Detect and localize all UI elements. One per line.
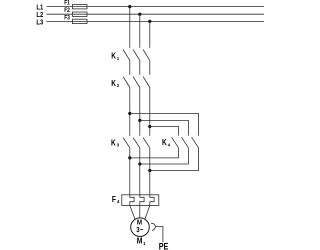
wire: bus 2 upper [139,14,141,48]
svg-text:M: M [137,237,143,246]
wire: K4 middle branch top (bus2 to K4 pole 2) [140,120,189,135]
wire: PE lead [155,226,163,242]
node: K4 return to bus 3 [148,169,151,172]
node: tap L2 [138,13,141,16]
wire: K4 inner branch top (bus3 to K4 pole 1) [150,127,179,136]
wire: K4 middle branch bottom (K4 pole 2 to bus 2) [140,148,189,164]
wire: K4 outer branch top (bus1 to K4 pole 3) [130,114,199,136]
node: tap L1 [128,5,131,8]
label K1 [111,52,120,61]
contactor K2 main contacts [123,77,150,88]
wire: bus 1 upper [129,7,131,48]
overload relay F4 heater element pole 2 [140,195,144,206]
wire: bus 1 between K1 and K2 [129,60,131,74]
wire: bus 2 between K1 and K2 [139,60,141,74]
label K4 [162,138,171,147]
phase line L2 [47,13,265,15]
wire: bus 3 between K3 and F4 [149,148,151,195]
fuse F1 [64,0,87,9]
wire: bus 3 between K2 and K3 [149,88,151,136]
svg-text:K: K [162,138,167,147]
node: K4 return to bus 1 [128,156,131,159]
label M1 [137,237,146,246]
contactor K3 main contacts [123,138,150,148]
node: K4 branch from bus 2 [138,119,141,122]
svg-text:K: K [111,79,116,88]
wire: bus 1 between K2 and K3 [129,88,131,136]
wire: F4 to motor terminal V [139,206,141,218]
contactor K4 main contacts [172,137,199,148]
phase line L3 [47,20,265,22]
fuse F3 [64,14,87,23]
svg-text:F2: F2 [64,7,70,14]
svg-text:F3: F3 [64,14,70,21]
overload relay F4 box [122,195,159,206]
svg-text:PE: PE [159,242,169,250]
wire: F4 to motor terminal U [130,206,135,220]
svg-text:3~: 3~ [136,225,143,234]
wire: bus 3 between K1 and K2 [149,60,151,74]
node: K4 branch from bus 3 [148,125,151,128]
overload relay F4 heater element pole 3 [150,195,154,206]
wire: K4 outer branch bottom (K4 pole 3 to bus 3) [150,148,199,171]
motor M1 circle [131,218,150,237]
wire: bus 1 between K3 and F4 [129,148,131,195]
wire: bus 2 between K2 and K3 [139,88,141,136]
PE terminal arc on motor [151,223,155,230]
wire: bus 2 between K3 and F4 [139,148,141,195]
fuse F2 [64,7,87,16]
svg-text:F1: F1 [64,0,70,7]
phase line L1 [47,6,265,8]
wire: F4 to motor terminal W [145,206,150,220]
node: K4 branch from bus 1 [128,112,131,115]
overload relay F4 heater element pole 1 [130,195,134,206]
label F4 [112,195,120,204]
label K2 [111,79,120,88]
contactor K1 main contacts [123,50,150,61]
label K3 [111,139,120,148]
wire: K4 inner branch bottom (K4 pole 1 to bus 1) [130,148,179,158]
node: K4 return to bus 2 [138,162,141,165]
svg-text:K: K [111,52,116,61]
svg-text:K: K [111,139,116,148]
svg-text:L3: L3 [36,17,43,26]
svg-text:F: F [112,195,116,204]
motor M1 text M 3~ [136,218,143,234]
node: tap L3 [148,20,151,23]
wire: bus 3 upper [149,21,151,47]
